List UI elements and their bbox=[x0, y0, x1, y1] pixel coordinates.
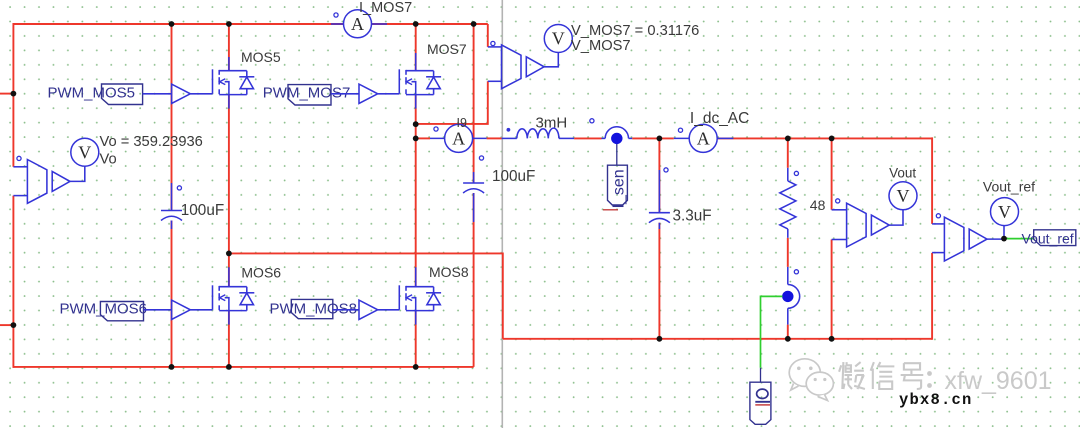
wire: left cap blue leads bbox=[171, 183, 173, 229]
wire: MOS6 blue leads bbox=[228, 267, 230, 324]
gate driver for MOS5 bbox=[172, 84, 191, 103]
svg-text:PWM_MOS7: PWM_MOS7 bbox=[263, 85, 351, 102]
wire: I_dc_AC to right corner bbox=[717, 137, 932, 139]
junction node (831.6,338.8) bbox=[829, 336, 835, 342]
wire: stub to left edge (bus+) bbox=[0, 93, 13, 95]
label 3mH bbox=[536, 114, 568, 131]
svg-text:A: A bbox=[351, 14, 364, 34]
label Vo bbox=[100, 152, 117, 168]
voltage sensor Vout_ref bbox=[932, 217, 987, 261]
signal tag Vout_ref bbox=[1022, 230, 1076, 247]
wire: inverter output node to I9 bbox=[416, 137, 430, 139]
label MOS6 bbox=[241, 265, 281, 281]
wire: PWM_MOS7 to driver bbox=[331, 93, 359, 95]
svg-text:ybx8.cn: ybx8.cn bbox=[899, 391, 973, 409]
current sensor I_sen node bbox=[602, 127, 633, 165]
watermark text weixinhao bbox=[839, 362, 1053, 397]
wire: I_MOS7 blue stubs bbox=[331, 23, 387, 25]
Io probe body bbox=[750, 368, 771, 425]
polarity marker L1 bbox=[507, 128, 511, 132]
voltage sensor Vo bbox=[13, 160, 70, 204]
wire: inductor to sen node bbox=[574, 137, 601, 139]
svg-text:Vout_ref: Vout_ref bbox=[983, 178, 1035, 194]
wire: I9 to inductor bbox=[487, 137, 502, 139]
svg-text:48: 48 bbox=[810, 197, 826, 213]
svg-text:Vo = 359.23936: Vo = 359.23936 bbox=[100, 134, 203, 150]
wire: left DC bus lower segment bbox=[12, 196, 14, 368]
gate driver for MOS7 bbox=[359, 84, 378, 103]
polarity marker I_dc_AC bbox=[678, 128, 682, 132]
junction node (831.6,138.4) bbox=[829, 136, 835, 142]
gate driver for MOS8 bbox=[359, 300, 378, 319]
polarity marker Vo bbox=[17, 156, 21, 160]
junction node (415.7,138.4) bbox=[413, 136, 419, 142]
wire: green probe wire to Io bbox=[761, 296, 783, 367]
wire: driver to MOS6 gate bbox=[190, 309, 212, 311]
junction node (473.6,24) bbox=[471, 21, 477, 27]
label Vo value bbox=[100, 134, 203, 150]
wire: H-bridge return (left leg midpoint to output rail) bbox=[229, 253, 503, 338]
signal tag PWM_MOS8 bbox=[270, 299, 358, 318]
capacitor C3 3.3uF bbox=[649, 208, 712, 225]
current probe node for Io bbox=[782, 267, 800, 325]
junction node (659.4,138.4) bbox=[657, 136, 663, 142]
svg-text:I9: I9 bbox=[457, 116, 467, 130]
polarity marker I_MOS7 bbox=[334, 13, 338, 17]
wire: 48 ohm resistor leg upper bbox=[787, 138, 789, 167]
svg-text:PWM_MOS5: PWM_MOS5 bbox=[48, 85, 136, 102]
wire: MOS5 drain leg bbox=[228, 24, 230, 71]
junction node (171.5,24) bbox=[169, 21, 175, 27]
polarity marker C1 bbox=[177, 186, 181, 190]
junction node (415.7,24) bbox=[413, 21, 419, 27]
svg-text:PWM_MOS8: PWM_MOS8 bbox=[270, 301, 358, 318]
wire: green wire to Vout_ref tag bbox=[1004, 238, 1034, 240]
wire: I_dc_AC blue stubs bbox=[674, 137, 734, 139]
wire: right edge drop to output bottom rail bbox=[931, 137, 933, 339]
wire: Vout sensor tap leg bbox=[831, 138, 833, 338]
polarity marker Vout_ref bbox=[936, 214, 940, 218]
wire: stub to left edge (bus-) bbox=[0, 324, 13, 326]
junction node (171.5,366.9) bbox=[169, 364, 175, 370]
label MOS8 bbox=[429, 264, 469, 280]
wire: 3.3uF capacitor leg bbox=[658, 138, 660, 338]
wire: I9 blue stubs bbox=[430, 137, 487, 139]
voltmeter Vout bbox=[889, 182, 917, 210]
wire: MOS7 blue leads bbox=[415, 53, 417, 109]
svg-text:MOS7: MOS7 bbox=[427, 41, 467, 57]
transistor MOS7 bbox=[399, 69, 441, 94]
svg-text:I_MOS7: I_MOS7 bbox=[359, 0, 412, 16]
transistor MOS6 bbox=[213, 285, 255, 310]
junction node (787.8,338.8) bbox=[785, 336, 791, 342]
wire: top DC bus rail bbox=[13, 23, 487, 25]
svg-text:V_MOS7: V_MOS7 bbox=[571, 38, 631, 54]
svg-text:V: V bbox=[78, 142, 91, 162]
wire: MOS5 blue leads bbox=[228, 57, 230, 109]
svg-text:MOS8: MOS8 bbox=[429, 264, 469, 280]
svg-text:3mH: 3mH bbox=[536, 114, 568, 131]
svg-text:3.3uF: 3.3uF bbox=[673, 208, 712, 225]
I_sen probe body bbox=[603, 165, 628, 210]
wire: driver to MOS5 gate bbox=[190, 93, 212, 95]
polarity marker V_MOS7 bbox=[491, 41, 495, 45]
wire: Io probe node to bottom rail bbox=[787, 325, 789, 339]
wire: Vout_ref probe output bbox=[987, 238, 1004, 240]
wire: driver to MOS8 gate bbox=[378, 309, 400, 311]
junction node (787.8,138.4) bbox=[785, 136, 791, 142]
capacitor C2 100uF bbox=[463, 168, 535, 193]
voltmeter Vo bbox=[71, 138, 99, 166]
wire: output bottom rail bbox=[503, 338, 932, 340]
svg-text:Vo: Vo bbox=[100, 152, 117, 168]
polarity marker Vout bbox=[836, 199, 840, 203]
svg-text:V: V bbox=[552, 29, 565, 49]
label V_MOS7 value bbox=[571, 23, 699, 39]
wire: MOS8 blue leads bbox=[415, 267, 417, 324]
wire: MOS6 source leg bbox=[228, 311, 230, 367]
wire: sen node to 3.3uF junction and I_dc_AC bbox=[632, 137, 674, 139]
wire: MOS8 source leg bbox=[415, 311, 417, 367]
junction node (13.4,93.6) bbox=[11, 91, 17, 97]
wire: driver to MOS7 gate bbox=[378, 93, 400, 95]
signal tag PWM_MOS5 bbox=[48, 84, 143, 105]
label Vout bbox=[889, 165, 916, 180]
svg-text:V: V bbox=[998, 202, 1011, 222]
junction node (13.4,325.1) bbox=[11, 322, 17, 328]
wire: PWM_MOS8 to driver bbox=[333, 309, 359, 311]
wire: Vout probe to voltmeter bbox=[889, 210, 903, 225]
resistor R1 48 bbox=[780, 168, 796, 238]
wire: right 100uF capacitor leg bbox=[473, 24, 475, 367]
wire: MOS5 source to MOS6 drain leg bbox=[228, 95, 230, 287]
label Vout_ref bbox=[983, 178, 1035, 194]
transistor MOS8 bbox=[399, 285, 441, 310]
signal tag PWM_MOS6 bbox=[60, 301, 148, 321]
wire: V_MOS7 sensor minus feed bbox=[416, 81, 488, 124]
wire: Vo probe to voltmeter bbox=[70, 166, 85, 181]
wire: left DC bus upper segment bbox=[12, 23, 14, 167]
voltage sensor Vout bbox=[832, 203, 890, 247]
polarity marker C2 bbox=[479, 156, 483, 160]
wire: 3.3uF blue leads bbox=[658, 170, 660, 229]
wire: junction to Vout_ref voltmeter bbox=[1003, 226, 1005, 239]
label V_MOS7 bbox=[571, 38, 631, 54]
svg-text:A: A bbox=[452, 129, 465, 149]
ammeter I_MOS7 bbox=[344, 10, 372, 38]
signal tag PWM_MOS7 bbox=[263, 85, 351, 106]
junction node (228.9,24) bbox=[226, 21, 232, 27]
polarity marker Io node bbox=[794, 270, 798, 274]
polarity marker I9 bbox=[434, 127, 438, 131]
svg-text:100uF: 100uF bbox=[181, 202, 224, 219]
ammeter I_dc_AC bbox=[689, 124, 717, 152]
svg-text:I_dc_AC: I_dc_AC bbox=[690, 110, 749, 127]
wire: left 100uF capacitor leg bbox=[171, 24, 173, 367]
svg-text:MOS6: MOS6 bbox=[241, 265, 281, 281]
wire: bottom H-bridge rail bbox=[13, 366, 473, 368]
polarity marker R1 bbox=[794, 171, 798, 175]
svg-text:Vout_ref: Vout_ref bbox=[1022, 231, 1074, 247]
label I_dc_AC bbox=[690, 110, 749, 127]
wire: V_MOS7 sensor plus feed from top rail bbox=[487, 24, 489, 47]
capacitor C1 100uF bbox=[161, 202, 224, 221]
label MOS5 bbox=[241, 49, 281, 65]
watermark url ybx8.cn bbox=[899, 391, 973, 409]
page divider line bbox=[501, 0, 503, 428]
junction node (415.7,366.9) bbox=[413, 364, 419, 370]
svg-text:Vout: Vout bbox=[889, 165, 916, 180]
wire: PWM_MOS6 to driver bbox=[144, 309, 172, 311]
svg-text:100uF: 100uF bbox=[492, 168, 535, 185]
wire: right cap blue leads bbox=[473, 172, 475, 222]
polarity marker I_sen bbox=[590, 119, 594, 123]
junction node (228.9,253.4) bbox=[226, 251, 232, 257]
ammeter I9 bbox=[445, 124, 473, 152]
wire: MOS7 drain leg bbox=[415, 24, 417, 71]
polarity marker C3 bbox=[664, 168, 668, 172]
junction node (659.4,338.8) bbox=[657, 336, 663, 342]
transistor MOS5 bbox=[213, 69, 255, 94]
label MOS7 bbox=[427, 41, 467, 57]
watermark wechat logo bbox=[789, 359, 833, 401]
svg-text:I_sen: I_sen bbox=[611, 169, 628, 208]
label 48 bbox=[810, 197, 826, 213]
svg-text:A: A bbox=[697, 129, 710, 149]
junction node (415.7,124.2) bbox=[413, 121, 419, 127]
junction node (228.9,366.9) bbox=[226, 364, 232, 370]
svg-text:PWM_MOS6: PWM_MOS6 bbox=[60, 301, 148, 318]
label I_MOS7 bbox=[359, 0, 412, 16]
wire: MOS7 source to MOS8 drain leg bbox=[415, 95, 417, 287]
svg-text:MOS5: MOS5 bbox=[241, 49, 281, 65]
inductor L1 3mH bbox=[502, 128, 574, 138]
label I9 bbox=[457, 116, 467, 130]
voltage sensor V_MOS7 bbox=[488, 45, 544, 89]
svg-text:V: V bbox=[897, 186, 910, 206]
gate driver for MOS6 bbox=[172, 300, 191, 319]
wire: 48 ohm resistor to Io probe node bbox=[787, 238, 789, 267]
node Vout_ref junction bbox=[1001, 236, 1007, 242]
voltmeter V_MOS7 bbox=[544, 25, 572, 53]
voltmeter Vout_ref bbox=[991, 198, 1019, 226]
wire: V_MOS7 probe to voltmeter bbox=[544, 53, 558, 67]
svg-text:V_MOS7 = 0.31176: V_MOS7 = 0.31176 bbox=[571, 23, 699, 39]
wire: PWM_MOS5 to driver bbox=[143, 93, 172, 95]
